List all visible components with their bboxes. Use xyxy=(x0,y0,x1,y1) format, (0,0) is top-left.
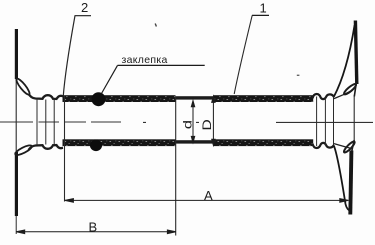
right flange rim (upper thick part) xyxy=(355,21,356,85)
right neck vertical line 2 xyxy=(324,98,326,146)
right rolled edge curl (top) xyxy=(343,83,357,96)
left flange rim (middle thin part) xyxy=(15,79,17,152)
rivet head (top wall) xyxy=(92,92,106,106)
svg-text:B: B xyxy=(89,220,98,235)
tube lower wall (sectioned band, right) xyxy=(213,139,313,146)
left flange rim (upper thick part) xyxy=(15,29,18,79)
left neck vertical line 3 xyxy=(53,100,55,145)
tube upper wall (sectioned band, left) xyxy=(63,95,176,102)
left flange rim (lower thick part) xyxy=(15,152,18,216)
small scan speck right of label 1 leader xyxy=(297,75,300,76)
dimension line D (vertical with arrows) xyxy=(212,96,215,145)
tube lower wall (unsectioned window line) xyxy=(176,140,214,143)
part label 2 underline xyxy=(75,15,92,17)
part label 2 leader line xyxy=(63,16,75,97)
svg-text:A: A xyxy=(204,188,213,203)
part label 1 leader line xyxy=(234,15,252,94)
tube upper wall (unsectioned window line) xyxy=(176,96,214,99)
left rolled edge curl (top) xyxy=(15,77,32,96)
rivet head (bottom wall) xyxy=(90,140,102,152)
right bell bottom inner surface xyxy=(334,144,352,149)
right flange rim (lower thick part) xyxy=(350,151,351,215)
right bell top outer surface xyxy=(334,25,355,97)
svg-text:d: d xyxy=(182,120,195,129)
left joint line / A extension line xyxy=(64,96,66,202)
right rim transition lower xyxy=(352,140,355,152)
small scan speck near top center xyxy=(155,24,156,27)
right rolled edge curl (bottom) xyxy=(343,140,356,153)
tube lower wall (sectioned band, left) xyxy=(63,139,176,146)
right bell bottom outer surface xyxy=(334,145,352,211)
left neck vertical line 1 xyxy=(36,99,38,145)
left neck top profile with corrugation bead xyxy=(29,94,64,99)
svg-text:2: 2 xyxy=(81,0,88,15)
part label 1 underline xyxy=(252,14,269,16)
rivet callout leader line xyxy=(102,65,118,93)
svg-text:D: D xyxy=(201,119,214,130)
svg-text:1: 1 xyxy=(260,1,267,16)
dimension line A with arrows xyxy=(65,199,348,203)
right neck bottom profile with corrugation beads xyxy=(313,143,334,148)
right neck vertical line 1 xyxy=(316,97,318,147)
dimension line B with arrows xyxy=(16,230,176,234)
dimension line d (vertical with arrows) xyxy=(191,101,194,143)
rivet callout underline xyxy=(118,64,205,66)
left neck vertical line 2 xyxy=(45,100,47,145)
right bell top inner surface xyxy=(334,90,353,98)
tube upper wall (sectioned band, right) xyxy=(213,95,313,102)
right neck top profile with corrugation beads xyxy=(313,94,334,99)
left rim extension line down to B dimension xyxy=(15,216,17,234)
right rim transition upper xyxy=(354,83,356,97)
centerline (horizontal axis) xyxy=(0,121,373,123)
section boundary line / B extension line xyxy=(175,97,177,236)
left neck bottom profile with corrugation bead xyxy=(29,145,64,150)
right neck vertical line 3 xyxy=(333,97,335,147)
left rolled edge curl (bottom) xyxy=(14,144,33,157)
right flange rim (middle thin part) xyxy=(353,96,355,142)
svg-text:заклепка: заклепка xyxy=(122,54,168,66)
